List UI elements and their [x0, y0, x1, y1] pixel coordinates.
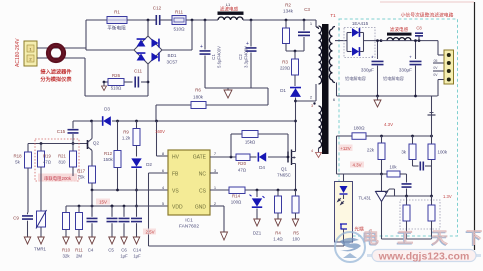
svg-text:FAN7602: FAN7602 — [179, 224, 199, 230]
svg-text:VS: VS — [172, 188, 179, 194]
wire AC line bottom — [37, 57, 85, 59]
transformer secondary winding — [329, 29, 332, 80]
aux bottom arrow — [318, 148, 320, 152]
wire VDD bus — [66, 205, 168, 207]
svg-text:5k: 5k — [15, 160, 20, 165]
svg-text:3C57: 3C57 — [167, 60, 178, 65]
svg-text:510Ω: 510Ω — [173, 27, 185, 32]
svg-text:+: + — [371, 55, 374, 60]
capacitor comp — [406, 174, 408, 183]
capacitor C14 — [136, 206, 138, 217]
wire GND pin — [210, 205, 224, 207]
svg-text:TMR1: TMR1 — [34, 247, 47, 252]
svg-text:1.2k: 1.2k — [122, 136, 131, 141]
svg-text:C9: C9 — [13, 216, 19, 221]
svg-text:C3: C3 — [304, 7, 310, 12]
svg-text:平衡电阻: 平衡电阻 — [107, 25, 126, 32]
svg-text:330μF: 330μF — [361, 68, 374, 73]
capacitor C8 small — [418, 39, 421, 42]
svg-text:GATE: GATE — [193, 154, 207, 160]
capacitor C4 — [91, 206, 93, 217]
svg-text:R10: R10 — [62, 248, 71, 253]
wire R6 line drop to HV node — [155, 105, 157, 121]
resistor R17 75k — [89, 166, 96, 183]
svg-text:铝电解电容: 铝电解电容 — [345, 75, 366, 82]
junction base bus C15 — [72, 142, 75, 145]
wire output run — [381, 40, 438, 42]
wire FB drop — [148, 173, 150, 246]
svg-text:150k: 150k — [103, 157, 113, 162]
transformer T1 core — [322, 24, 329, 154]
resistor 15k gate loop — [230, 134, 232, 157]
capacitor C1 5.6uF/400V — [204, 20, 206, 50]
capacitor feedback small — [413, 165, 419, 167]
svg-text:铝电解电容: 铝电解电容 — [383, 75, 404, 82]
svg-text:47Ω: 47Ω — [43, 160, 51, 165]
capacitor C12 — [156, 15, 159, 25]
svg-text:C12: C12 — [153, 6, 162, 11]
svg-text:串联电阻200k: 串联电阻200k — [44, 175, 72, 182]
resistor R20 47 — [236, 154, 250, 161]
resistor R14 100 — [229, 187, 245, 194]
transistor Q2 — [87, 140, 89, 149]
svg-text:3k: 3k — [401, 150, 406, 155]
junction rail x286 (R2 tap) — [285, 19, 288, 22]
wire GATE — [210, 156, 236, 158]
common-mode choke L0 (toroid) — [48, 45, 63, 60]
svg-text:R14: R14 — [232, 194, 241, 199]
capacitor C6 — [123, 206, 125, 217]
svg-text:3.3μF/400V: 3.3μF/400V — [244, 46, 249, 68]
svg-text:0V: 0V — [433, 73, 438, 77]
junction R5 — [294, 189, 297, 192]
resistor 22k — [381, 136, 383, 143]
capacitor C15 — [72, 121, 74, 129]
resistor 100k — [431, 136, 433, 144]
resistor R10 32k — [65, 206, 67, 213]
svg-text:100Ω: 100Ω — [231, 200, 242, 205]
svg-text:+: + — [409, 55, 412, 60]
svg-text:05: 05 — [434, 59, 438, 63]
svg-text:1μF: 1μF — [133, 254, 141, 259]
junction 0V column — [430, 135, 433, 138]
svg-text:100: 100 — [292, 237, 300, 242]
transformer aux winding — [319, 106, 322, 148]
junction R4 — [277, 189, 280, 192]
wire C1/C2 bottom bus — [205, 87, 268, 89]
junction rail x304 (C3 tap) — [303, 19, 306, 22]
junction rail x192 — [191, 19, 194, 22]
svg-text:C2: C2 — [238, 54, 243, 60]
zener diode DZ1 — [256, 190, 258, 197]
capacitor C3 — [303, 20, 305, 31]
svg-text:R11: R11 — [75, 248, 83, 253]
opto LED — [340, 186, 348, 193]
svg-text:D3: D3 — [104, 107, 110, 112]
svg-text:220Ω: 220Ω — [280, 66, 290, 71]
svg-text:C15: C15 — [57, 129, 66, 134]
svg-text:100k: 100k — [438, 150, 448, 155]
svg-text:分为模拟仪表: 分为模拟仪表 — [40, 75, 72, 83]
wire FB — [149, 172, 169, 174]
diode D1 — [290, 88, 301, 97]
svg-text:32k: 32k — [62, 254, 70, 259]
svg-text:R18: R18 — [13, 154, 22, 159]
svg-text:R20: R20 — [238, 161, 247, 166]
ground tick on 0V column — [428, 114, 436, 116]
optocoupler U2 — [343, 174, 345, 182]
svg-text:www.dgjs123.com: www.dgjs123.com — [378, 251, 470, 263]
resistor R4 1.4 — [277, 190, 279, 196]
svg-text:D2: D2 — [146, 162, 152, 167]
inductor L1 filter choke — [218, 12, 244, 15]
svg-text:4.3V: 4.3V — [384, 122, 393, 127]
svg-text:R12: R12 — [104, 151, 113, 156]
wire transformer pin2 — [296, 100, 317, 102]
resistor lower divider A — [406, 196, 408, 205]
svg-text:1μF: 1μF — [120, 254, 128, 259]
svg-text:75k: 75k — [77, 175, 85, 180]
wire base bus — [28, 143, 87, 145]
svg-text:7N65C: 7N65C — [277, 173, 291, 178]
resistor 3k — [412, 136, 414, 144]
svg-text:22k: 22k — [367, 148, 375, 153]
svg-text:5.6μF/400V: 5.6μF/400V — [217, 46, 222, 68]
aux phase dot — [313, 102, 315, 104]
resistor R 180 ohm — [337, 135, 353, 137]
wire secondary top pin 5 — [333, 27, 336, 30]
svg-text:R11: R11 — [175, 10, 184, 15]
svg-text:AC180-264V: AC180-264V — [15, 38, 21, 67]
resistor R12 150k — [117, 121, 119, 151]
resistor R18 5k — [27, 144, 29, 153]
svg-text:R6: R6 — [195, 88, 201, 93]
junction DZ1 — [256, 189, 259, 192]
ground arrow C9 — [24, 237, 31, 244]
node arrow at R26 left — [103, 81, 106, 84]
svg-text:4: 4 — [311, 149, 313, 153]
svg-text:134k: 134k — [283, 9, 294, 14]
svg-text:1EA415: 1EA415 — [352, 21, 369, 26]
svg-text:DZ1: DZ1 — [253, 231, 262, 236]
svg-text:Q1: Q1 — [281, 167, 288, 172]
svg-text:电 工 天 下: 电 工 天 下 — [363, 228, 483, 247]
wire D2 to VDD bus — [136, 169, 138, 207]
svg-text:R17: R17 — [77, 169, 86, 174]
wire Q1 drain — [295, 150, 297, 152]
op-amp U1 PWM controller IC1 FAN7602 — [168, 150, 210, 215]
opto phototransistor — [340, 224, 347, 229]
0V column upper — [431, 96, 433, 136]
wire VS bus — [92, 189, 168, 191]
transistor Q1 7N65C — [287, 152, 289, 163]
diode D4 — [250, 156, 257, 158]
junction rail x251 (C2 tap) — [250, 19, 253, 22]
dual diode 1EA415 — [344, 28, 375, 58]
svg-text:R4: R4 — [275, 231, 281, 236]
svg-text:15kΩ: 15kΩ — [245, 140, 256, 145]
svg-text:GND: GND — [195, 204, 207, 210]
secondary ground arrow — [377, 96, 379, 100]
svg-text:Q2: Q2 — [93, 141, 100, 146]
capacitor C11 — [124, 81, 133, 83]
resistor R19 47 — [40, 144, 42, 152]
svg-text:D4: D4 — [259, 165, 265, 170]
svg-text:NC: NC — [199, 171, 207, 177]
ground arrow IC GND — [221, 232, 228, 240]
net label +12V left — [339, 145, 353, 152]
svg-text:0V: 0V — [433, 66, 438, 70]
wire CS bus — [210, 189, 229, 191]
wire LED feed — [337, 173, 382, 175]
transformer primary winding — [319, 26, 322, 84]
svg-text:R26: R26 — [112, 73, 121, 78]
svg-text:C8: C8 — [416, 26, 422, 31]
watermark logo — [335, 232, 365, 262]
svg-text:R9: R9 — [123, 130, 129, 135]
red dotted box (series resistors) — [35, 139, 79, 181]
wire Q2 emitter down — [91, 151, 93, 167]
wire pin1 — [315, 20, 317, 27]
output connector J2 — [437, 41, 439, 55]
svg-text:接入滤波器件: 接入滤波器件 — [40, 68, 72, 76]
ground arrow TMR1 — [38, 237, 45, 244]
wire clamp join — [286, 50, 304, 52]
bridge rectifier BD1 — [134, 36, 162, 64]
wire ref bus y196 — [382, 195, 432, 197]
resistor R1 (平衡电阻) — [107, 17, 127, 24]
resistor R9 1.2k — [136, 121, 138, 129]
capacitor C5 — [111, 206, 113, 217]
svg-text:15V: 15V — [99, 200, 107, 205]
junction 3k top — [411, 135, 414, 138]
svg-text:C14: C14 — [133, 248, 142, 253]
svg-text:2M: 2M — [76, 254, 82, 259]
svg-text:1.3V: 1.3V — [443, 194, 452, 199]
resistor R11 510 — [172, 16, 186, 25]
svg-text:510Ω: 510Ω — [111, 86, 122, 91]
svg-text:R21: R21 — [58, 154, 66, 159]
wire bridge DC+ right corner to rail — [162, 49, 192, 51]
resistor R21 810 — [72, 144, 74, 152]
wire AC line top — [37, 47, 86, 49]
svg-text:R5: R5 — [293, 231, 299, 236]
svg-text:D1: D1 — [280, 88, 286, 93]
svg-text:T1: T1 — [330, 13, 336, 18]
svg-text:TL431: TL431 — [359, 196, 372, 201]
svg-text:FB: FB — [172, 171, 179, 177]
junction HV drop — [155, 120, 158, 123]
junction C5 — [111, 205, 114, 208]
wire bridge bottom down — [147, 64, 149, 96]
svg-text:4.3V: 4.3V — [352, 163, 361, 168]
svg-text:R1: R1 — [114, 10, 120, 15]
resistor R3 220 — [294, 51, 296, 59]
svg-text:BD1: BD1 — [168, 53, 177, 58]
svg-text:180Ω: 180Ω — [353, 126, 365, 131]
wire bottom ref rail — [382, 238, 432, 240]
junction 22k top — [380, 135, 383, 138]
wire Q2 collector up — [91, 121, 93, 139]
svg-text:R2: R2 — [285, 3, 291, 8]
svg-text:IC1: IC1 — [185, 218, 193, 224]
wire rail after L1 — [243, 19, 316, 21]
net label +4.3V mid — [350, 162, 364, 168]
svg-text:C4: C4 — [88, 248, 94, 253]
svg-text:2.5V: 2.5V — [145, 230, 154, 235]
primary ground arrow — [227, 88, 229, 90]
svg-text:180k: 180k — [193, 95, 204, 100]
svg-text:1.4Ω: 1.4Ω — [273, 237, 283, 242]
svg-text:VDD: VDD — [172, 204, 183, 210]
shunt regulator TL431 — [381, 174, 383, 191]
wire HV pin drop — [156, 121, 158, 156]
wire TL431 anode down — [381, 202, 383, 240]
wire NC stub — [210, 172, 218, 174]
junction R26 row right — [147, 81, 150, 84]
resistor R11b 2M — [78, 206, 80, 213]
junction R9 top — [135, 120, 138, 123]
svg-text:810: 810 — [59, 160, 67, 165]
svg-text:C1: C1 — [211, 54, 216, 60]
junction rail x205 (C1 tap) — [204, 19, 207, 22]
svg-text:R3: R3 — [282, 60, 288, 65]
wire HV bus y121 — [73, 120, 102, 122]
svg-text:C5: C5 — [108, 248, 114, 253]
svg-text:C6: C6 — [121, 248, 127, 253]
junction gate node — [287, 156, 290, 159]
watermark url band — [372, 250, 476, 262]
junction R12 top — [116, 120, 119, 123]
wire secondary bottom pin 6 — [333, 80, 336, 83]
wire secondary 0V rail — [337, 95, 438, 97]
resistor R2 134k — [285, 20, 287, 28]
svg-text:10k: 10k — [389, 165, 397, 170]
junction rectifier output — [380, 39, 383, 42]
svg-text:R19: R19 — [43, 154, 51, 159]
resistor 10k — [387, 171, 400, 177]
resistor R6 180k — [156, 104, 191, 106]
wire D1 anode to drain node — [295, 98, 297, 151]
svg-text:滤波电感: 滤波电感 — [220, 6, 239, 13]
border frame — [474, 2, 476, 250]
wire bus to R6 line — [267, 88, 269, 105]
wire bridge AC1 (left corner) — [86, 49, 134, 51]
thermistor TMR1 — [40, 210, 42, 212]
resistor lower divider B — [431, 196, 433, 205]
wire FB bottom run — [149, 245, 345, 247]
junction Q2 collector — [90, 120, 93, 123]
svg-text:47Ω: 47Ω — [238, 168, 247, 173]
wire rail R1 to C12 — [127, 19, 153, 21]
svg-text:160V: 160V — [155, 129, 165, 134]
wire secondary to diodes — [335, 40, 347, 42]
resistor R26 — [104, 81, 108, 83]
diode D3 — [103, 116, 111, 126]
wire bridge top to rail — [147, 20, 149, 36]
dotted box lower divider — [400, 200, 440, 229]
wire pin2 link — [315, 84, 317, 101]
wire Q1 source — [295, 164, 297, 191]
inductor L2 output choke — [387, 33, 412, 36]
svg-text:+: + — [246, 41, 249, 47]
zener diode D2 — [136, 146, 138, 157]
dashed box secondary section — [339, 19, 458, 236]
wire aux supply drop — [336, 136, 338, 174]
wire VS-VDD link — [91, 190, 93, 206]
capacitor C16 330uF second — [415, 41, 417, 59]
svg-text:330μF: 330μF — [399, 68, 412, 73]
capacitor C9 — [22, 216, 33, 219]
resistor R5 100 — [295, 190, 297, 196]
wire AC return bottom — [84, 58, 86, 96]
connector J1 (AC input) — [24, 41, 37, 66]
svg-text:3: 3 — [311, 104, 313, 108]
svg-text:+: + — [200, 44, 203, 50]
svg-text:C11: C11 — [134, 69, 143, 74]
svg-text:滤波电感: 滤波电感 — [390, 26, 409, 33]
net label 2.5V — [143, 229, 156, 235]
net label +15V — [96, 199, 110, 205]
wire top rail left segment — [85, 20, 87, 50]
junction bridge-top on rail — [147, 19, 150, 22]
svg-text:CS: CS — [199, 188, 207, 194]
capacitor C10 330uF first — [377, 41, 379, 59]
svg-text:HV: HV — [172, 154, 180, 160]
capacitor C2 3.3uF/400V — [250, 20, 252, 47]
svg-text:+12V: +12V — [340, 146, 350, 151]
svg-text:小信号次级整流滤波电路: 小信号次级整流滤波电路 — [401, 12, 454, 19]
